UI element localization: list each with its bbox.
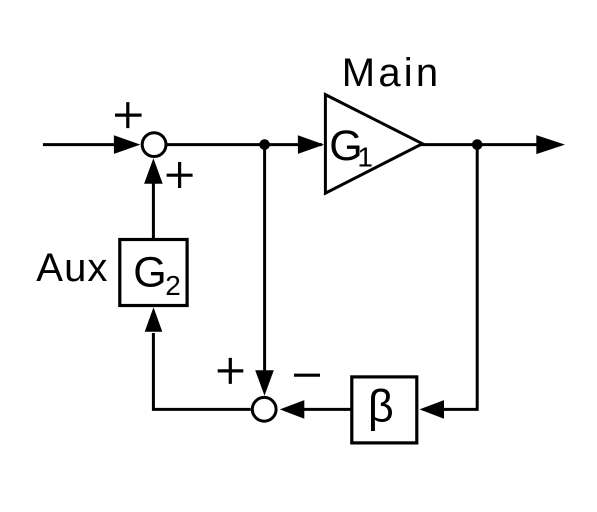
block G2	[120, 240, 187, 306]
arrowhead into beta block	[420, 400, 445, 419]
node A (junction dot after S1)	[259, 139, 270, 150]
wire: input line from left	[43, 143, 118, 146]
output arrowhead	[536, 135, 565, 154]
arrowhead into summing junction S1	[114, 135, 140, 154]
svg-text:G: G	[133, 249, 166, 297]
block beta	[352, 377, 417, 443]
svg-text:β: β	[368, 380, 394, 431]
plus sign (feedback input, lower-right of S1)	[167, 162, 193, 188]
summing junction S2	[252, 397, 276, 421]
wire: beta output to S2	[303, 408, 352, 411]
wire: S2 output left and up to G2	[153, 333, 250, 409]
arrowhead into S1 from below	[144, 158, 163, 184]
svg-text:1: 1	[357, 141, 373, 172]
wire: node B down and left to beta block	[442, 145, 477, 410]
wire: G2 output up to S1	[152, 183, 155, 240]
arrowhead into G2 from below	[145, 307, 163, 332]
plus sign (input, upper-left of S1)	[115, 102, 142, 128]
minus sign (right of S2)	[294, 374, 320, 377]
arrowhead into S2 from above	[255, 370, 274, 396]
wire: node A down to summing junction S2	[263, 145, 266, 372]
amplifier triangle G1	[325, 95, 422, 194]
node B (output junction dot)	[472, 139, 483, 150]
svg-text:Main: Main	[342, 51, 442, 95]
plus sign (left of S2)	[218, 358, 244, 384]
svg-text:2: 2	[165, 270, 181, 301]
arrowhead into amplifier G1	[298, 135, 324, 154]
wire: G1 output to node B and output arrow	[420, 143, 538, 146]
wire: S1 to node A and to G1	[166, 143, 322, 146]
svg-text:Aux: Aux	[36, 246, 108, 290]
summing junction S1	[142, 133, 166, 157]
arrowhead into S2 from the right	[280, 400, 305, 419]
